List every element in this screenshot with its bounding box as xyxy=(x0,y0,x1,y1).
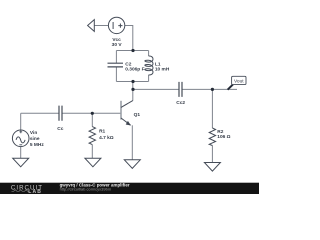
svg-text:Vcc: Vcc xyxy=(112,37,121,43)
svg-text:L1: L1 xyxy=(155,61,161,67)
svg-text:Cc2: Cc2 xyxy=(176,100,185,106)
svg-text:sine: sine xyxy=(30,136,40,142)
svg-text:5 MHz: 5 MHz xyxy=(30,142,44,148)
svg-text:106 Ω: 106 Ω xyxy=(217,134,230,140)
svg-text:http://circuitlab.com/cyx39bm: http://circuitlab.com/cyx39bm xyxy=(60,186,112,191)
svg-text:Vin: Vin xyxy=(30,130,37,136)
svg-text:Cc: Cc xyxy=(57,126,63,132)
svg-text:10 mH: 10 mH xyxy=(155,67,170,73)
svg-text:Vout: Vout xyxy=(234,79,244,85)
svg-text:0.306p F: 0.306p F xyxy=(125,66,144,72)
svg-text:Q1: Q1 xyxy=(134,112,141,118)
svg-text:LAB: LAB xyxy=(28,189,42,194)
svg-text:R2: R2 xyxy=(217,129,223,135)
svg-text:R1: R1 xyxy=(99,128,105,134)
svg-text:30 V: 30 V xyxy=(112,42,123,48)
svg-text:4.7 kΩ: 4.7 kΩ xyxy=(99,135,114,141)
